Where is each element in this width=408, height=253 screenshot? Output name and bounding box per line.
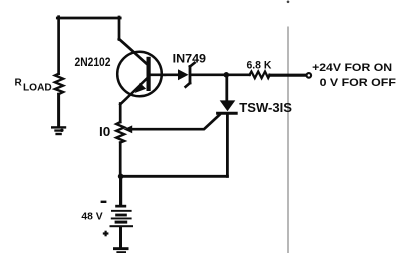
- svg-text:48 V: 48 V: [81, 212, 103, 223]
- wire: collector diagonal into transistor: [119, 39, 147, 64]
- wire: wiper to TSW cathode: [130, 115, 220, 129]
- page edge artifacts drawn first (decorative, unlabeled): [287, 27, 289, 253]
- wire: bottom rail to emitter branch: [121, 175, 228, 178]
- svg-text:IN749: IN749: [173, 52, 207, 66]
- ground (below R_LOAD): [51, 126, 66, 135]
- wire: battery bottom to ground: [119, 227, 122, 247]
- wire: left vertical from top wire down to R_LOAD: [57, 17, 60, 74]
- wire: TSW cathode down to bottom rail: [226, 115, 229, 177]
- label R_LOAD: [15, 78, 53, 94]
- ground (battery return): [113, 247, 129, 253]
- wire: junction down to TSW-31S anode: [225, 75, 228, 101]
- zener diode D1 (1N749): [178, 63, 195, 87]
- wire: zener to 6.8K resistor: [191, 73, 250, 76]
- node: junction of base line and TSW branch: [224, 72, 230, 78]
- wire: below R_LOAD to ground: [57, 94, 60, 126]
- wire: top horizontal from R_LOAD to collector branch: [57, 17, 120, 20]
- svg-text:TSW-3IS: TSW-3IS: [239, 100, 292, 115]
- svg-text:6.8 K: 6.8 K: [247, 59, 273, 71]
- transistor Q1 (2N2102): [117, 52, 165, 105]
- terminal: output circle: [307, 73, 312, 78]
- wire: right vertical drop from top wire (collector branch): [118, 17, 121, 40]
- label + (battery positive): [103, 231, 109, 237]
- node: bottom rail junction: [118, 174, 124, 180]
- emitter with arrow: [120, 79, 147, 105]
- wire: base to zener anode: [162, 73, 179, 76]
- svg-text:LOAD: LOAD: [23, 82, 52, 94]
- wire: potentiometer bottom to bottom rail and on to battery: [119, 143, 122, 177]
- base lead inside circle: [151, 73, 165, 76]
- label - (battery negative): [101, 201, 107, 203]
- svg-text:2N2102: 2N2102: [75, 55, 111, 69]
- svg-text:+24V FOR ON: +24V FOR ON: [312, 62, 392, 74]
- svg-text:I0: I0: [99, 124, 110, 139]
- wire: bottom rail junction down to battery: [119, 176, 122, 205]
- diode D2 (TSW-31S): [218, 100, 237, 113]
- battery BT1 (48 V): [110, 205, 134, 227]
- svg-text:R: R: [15, 78, 23, 89]
- resistor R2 (6.8K): [250, 72, 270, 79]
- potentiometer R3 (10 ohm) with wiper arrow: [116, 122, 132, 143]
- svg-text:0 V FOR OFF: 0 V FOR OFF: [320, 77, 397, 89]
- wire: 6.8K to output terminal (thick): [270, 74, 306, 77]
- resistor R_LOAD: [55, 74, 63, 95]
- wire: emitter vertical down to potentiometer: [119, 104, 122, 123]
